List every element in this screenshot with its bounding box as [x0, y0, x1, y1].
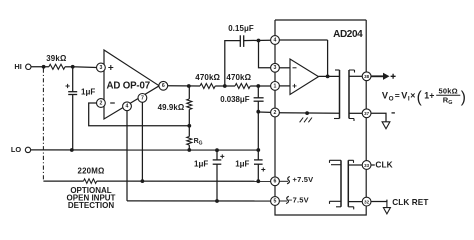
- node Rg-LO junction: [187, 148, 191, 152]
- svg-text:1μF: 1μF: [194, 160, 208, 169]
- wire pin3 internal: [279, 67, 290, 69]
- svg-text:470kΩ: 470kΩ: [195, 73, 220, 82]
- node pin7-railA junction: [141, 179, 145, 183]
- wire rail A left segment: [43, 180, 83, 182]
- wire cap3 bottom column: [257, 164, 259, 181]
- svg-text:33: 33: [364, 163, 369, 168]
- ground symbol at pin37: [382, 122, 390, 129]
- svg-text:3: 3: [274, 65, 277, 71]
- node gain junction: [187, 124, 191, 128]
- svg-text:×: ×: [410, 90, 415, 100]
- op-amp U1 pin 3: [97, 63, 106, 72]
- transformer T2 left top arm: [330, 160, 342, 163]
- output arrow at pin38: [371, 75, 384, 77]
- capacitor C1 top plate: [68, 91, 77, 93]
- wire pin4 internal: [279, 39, 327, 41]
- wire node B to op-amp pin3: [73, 66, 97, 69]
- svg-text:220MΩ: 220MΩ: [78, 167, 105, 176]
- transformer T1 right top arm: [349, 70, 355, 73]
- svg-text:=: =: [395, 91, 400, 101]
- AD204 pin 6: [271, 177, 280, 186]
- label plus output: [391, 74, 396, 79]
- AD204 pin 5: [271, 197, 280, 206]
- svg-text:(: (: [417, 89, 423, 106]
- svg-text:+7.5V: +7.5V: [293, 175, 314, 184]
- wire 0.15uF to pin4 node: [244, 39, 271, 41]
- wire output node down: [188, 86, 190, 99]
- wire internal column to output: [327, 40, 329, 76]
- svg-text:3: 3: [99, 65, 102, 71]
- transformer T1 right bottom arm: [349, 119, 354, 122]
- svg-text:6: 6: [162, 83, 165, 89]
- AD204 isolator box: [275, 20, 366, 215]
- AD204 pin 37: [362, 109, 371, 118]
- transformer T1 left bottom arm: [334, 118, 340, 120]
- transformer T1 right bar: [348, 70, 350, 119]
- wire pin4 supply column: [126, 111, 128, 201]
- wire pin33 stub: [371, 164, 375, 166]
- svg-text:39kΩ: 39kΩ: [46, 54, 66, 63]
- wire 39k to node B: [65, 66, 73, 68]
- capacitor 0.038uF top plate: [254, 97, 264, 99]
- capacitor 0.15uF right plate: [243, 35, 245, 47]
- label minus output: [392, 112, 395, 114]
- svg-text:5: 5: [274, 198, 277, 204]
- wire node B down to C1: [72, 67, 74, 92]
- wire rail B from pin4 column: [127, 200, 271, 202]
- svg-text:0.15μF: 0.15μF: [228, 24, 254, 33]
- wire T2 to pin32: [348, 201, 362, 203]
- svg-text:DETECTION: DETECTION: [68, 201, 114, 210]
- wire 470k node up to 0.15uF: [225, 41, 240, 86]
- svg-text:0.038μF: 0.038μF: [220, 95, 250, 104]
- node common-LO junction: [256, 148, 260, 152]
- wire T1 to pin37: [349, 112, 362, 114]
- resistor 39k: [49, 64, 65, 69]
- svg-text:1μF: 1μF: [81, 88, 95, 97]
- svg-text:7: 7: [141, 95, 144, 101]
- capacitor C1 bottom plate: [68, 94, 77, 96]
- op-amp U1 pin 2: [97, 99, 106, 108]
- node output junction: [187, 84, 191, 88]
- node cap2-railA junction: [256, 179, 260, 183]
- svg-text:38: 38: [364, 74, 369, 79]
- dashed optional-detection wire: [42, 69, 44, 182]
- resistor RG: [187, 137, 192, 146]
- wire pin32 to clk ret: [371, 200, 387, 202]
- wire rail A to pin6: [97, 180, 271, 182]
- svg-text:4: 4: [274, 37, 277, 43]
- capacitor C3 top plate: [254, 159, 263, 161]
- wire pin5 stub: [279, 200, 287, 202]
- transformer T2 right bar: [347, 160, 349, 207]
- svg-text:2: 2: [274, 110, 277, 116]
- transformer T2 left bar: [340, 160, 342, 207]
- wire Rg to LO line: [188, 145, 190, 150]
- op-amp U2 internal triangle: [290, 59, 319, 95]
- svg-text:AD OP-07: AD OP-07: [107, 80, 150, 91]
- svg-text:2: 2: [99, 100, 102, 106]
- wire cap3 top column: [257, 150, 259, 160]
- AD204 pin 38: [362, 72, 371, 81]
- wire pin37 to ground: [371, 113, 386, 121]
- svg-text:49.9kΩ: 49.9kΩ: [158, 103, 185, 112]
- wire internal output to T1: [319, 75, 340, 77]
- svg-text:HI: HI: [14, 62, 21, 71]
- wire feedback pin2 to gain node: [89, 103, 190, 126]
- op-amp U2 minus sign: [293, 67, 297, 69]
- AD204 pin 32: [362, 197, 371, 206]
- wire common column down: [257, 112, 259, 150]
- svg-text:−7.5V: −7.5V: [288, 196, 309, 205]
- wire HI terminal to node: [31, 66, 49, 68]
- transformer T1 left bar: [339, 70, 341, 119]
- transformer T2 right bottom arm: [348, 207, 353, 210]
- wire junction down to pin3: [259, 41, 271, 68]
- wire 49.9k to gain node: [188, 110, 190, 126]
- op-amp U2 plus sign: [293, 84, 297, 88]
- node cap1-railB junction: [215, 199, 219, 203]
- capacitor C2 plus sign: [220, 154, 224, 158]
- ground symbol at pin32: [383, 202, 390, 214]
- op-amp U1 pin 6: [159, 81, 168, 90]
- ground chassis hatch: [300, 118, 312, 123]
- node internal output junction: [326, 75, 330, 79]
- op-amp U1 minus input sign: [110, 102, 115, 104]
- resistor 470k second: [235, 84, 250, 89]
- node C1-LO junction: [70, 148, 74, 152]
- resistor 220M: [84, 179, 97, 184]
- AD204 pin 2: [271, 108, 280, 117]
- wire LO line: [30, 149, 258, 151]
- svg-text:+: +: [429, 91, 434, 101]
- op-amp U1 pin 7: [138, 94, 147, 103]
- wire op-amp output: [168, 85, 200, 87]
- wire main to 0.038 cap: [257, 86, 259, 98]
- capacitor 0.038uF bottom plate: [254, 100, 264, 102]
- input terminal HI: [26, 64, 31, 69]
- capacitor C2 bottom plate: [213, 163, 222, 165]
- svg-text:6: 6: [274, 179, 277, 185]
- svg-text:50kΩ: 50kΩ: [439, 86, 458, 95]
- transformer T2 left bottom arm: [336, 206, 341, 208]
- svg-text:470kΩ: 470kΩ: [226, 73, 251, 82]
- node cap1-LO junction: [215, 148, 219, 152]
- input terminal LO: [25, 147, 30, 152]
- node 0.15uF-pin4 junction: [257, 39, 261, 43]
- capacitor C3 plus sign: [261, 168, 265, 172]
- node 0.038-pin2 junction: [256, 110, 260, 114]
- capacitor C2 top plate: [213, 159, 222, 161]
- wire LO to cap2 done above: [257, 150, 259, 160]
- op-amp U1 plus input sign: [108, 65, 113, 70]
- svg-text:4: 4: [126, 104, 129, 110]
- capacitor 0.15uF left plate: [239, 35, 241, 47]
- wire pin1 internal: [279, 85, 290, 87]
- AD204 pin 33: [362, 161, 371, 170]
- node B junction: [71, 65, 75, 69]
- svg-text:AD204: AD204: [333, 29, 363, 40]
- wire pin2 internal common: [279, 112, 339, 115]
- wire gain node to Rg: [188, 126, 190, 137]
- svg-text:): ): [461, 89, 466, 106]
- svg-text:CLK RET: CLK RET: [392, 198, 428, 207]
- resistor 49.9k: [187, 99, 192, 110]
- node HI junction (dashed branch): [42, 65, 46, 69]
- wire 0.038 cap to pin2 wire: [257, 101, 259, 112]
- break squiggle at pin5: [286, 196, 289, 203]
- break squiggle at pin6: [287, 177, 290, 184]
- wire pin2 AD204 left: [258, 111, 270, 113]
- capacitor C3 bottom plate: [254, 163, 263, 165]
- svg-text:LO: LO: [11, 145, 22, 154]
- wire T1 to pin38: [349, 75, 362, 77]
- node common ground junction: [305, 111, 309, 115]
- wire cap1 top column: [216, 150, 218, 160]
- svg-text:32: 32: [364, 199, 369, 204]
- AD204 pin 1: [271, 82, 280, 91]
- resistor 470k first: [200, 84, 215, 89]
- capacitor C1 plus sign: [66, 84, 70, 88]
- wire pin7 supply column: [141, 102, 143, 181]
- op-amp U1 AD OP-07 triangle: [104, 50, 159, 119]
- svg-text:O: O: [389, 95, 394, 102]
- wire pin6 stub: [279, 180, 288, 182]
- wire cap1 bottom column: [216, 164, 218, 201]
- transformer T1 left top arm: [335, 69, 340, 71]
- node 0.038 cap junction: [256, 84, 260, 88]
- node 470k junction: [223, 84, 227, 88]
- wire 470k to pin1: [250, 85, 270, 87]
- svg-text:1μF: 1μF: [235, 160, 249, 169]
- svg-text:1: 1: [274, 83, 277, 89]
- wire between 470k resistors: [215, 85, 235, 87]
- svg-text:CLK: CLK: [375, 160, 392, 170]
- transformer T2 left stub: [331, 164, 341, 166]
- svg-text:37: 37: [364, 111, 369, 116]
- op-amp U1 pin 4: [123, 102, 132, 111]
- wire T2 to pin33: [348, 164, 362, 166]
- wire C1 to LO line: [72, 95, 74, 151]
- AD204 pin 4: [271, 36, 280, 45]
- transformer T2 left lower stub: [330, 201, 342, 204]
- transformer T2 right top arm: [348, 160, 353, 163]
- AD204 pin 3: [271, 63, 280, 72]
